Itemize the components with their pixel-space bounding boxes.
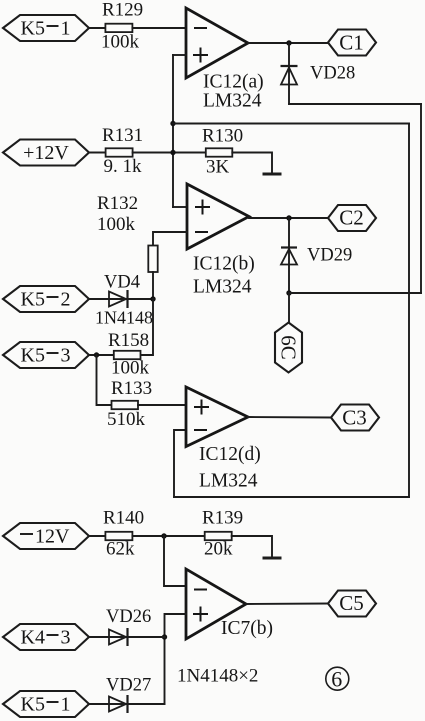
connector C2 [328, 205, 376, 231]
svg-text:C5: C5 [339, 591, 364, 615]
svg-text:K5: K5 [21, 345, 45, 367]
ground [263, 173, 282, 176]
node R140/R139 junction [161, 533, 166, 538]
svg-text:1: 1 [61, 694, 71, 716]
resistor R132 [97, 193, 158, 272]
svg-text:1N4148×2: 1N4148×2 [177, 666, 258, 687]
svg-text:K5: K5 [21, 694, 45, 716]
diode VD29 [281, 246, 352, 266]
svg-text:IC12(d): IC12(d) [199, 444, 261, 465]
connector +12V [3, 140, 89, 166]
connector K5-1 (bottom) [3, 691, 89, 717]
wire IC7(b) non-inverting input down to diodes [165, 614, 187, 704]
svg-text:LM324: LM324 [203, 91, 262, 112]
svg-text:R132: R132 [97, 193, 138, 214]
diode VD27 [106, 676, 151, 714]
wire junction down to IC7(b) inverting input [164, 536, 186, 586]
wire feedback bottom horizontal [174, 496, 409, 498]
svg-text:R131: R131 [102, 125, 143, 146]
connector C1 [328, 30, 376, 56]
svg-text:3K: 3K [206, 157, 230, 178]
wire IC12(d) output to C3 [248, 416, 331, 419]
connector -12V [3, 523, 89, 549]
svg-text:VD27: VD27 [106, 676, 151, 696]
svg-text:C2: C2 [339, 206, 364, 230]
resistor R131 [102, 125, 143, 177]
svg-text:1N4148: 1N4148 [95, 308, 153, 328]
wire IC12(a) non-inverting stub [173, 54, 186, 56]
wire R139 to ground [232, 536, 272, 557]
svg-text:R139: R139 [202, 508, 243, 529]
svg-text:K5: K5 [21, 289, 45, 311]
ground [263, 557, 282, 560]
svg-text:IC12(b): IC12(b) [193, 254, 255, 275]
wire K5-2 to VD4 [89, 298, 153, 300]
resistor R129 [101, 0, 143, 53]
wire node down to C6 [288, 293, 290, 323]
node C2 junction [286, 215, 291, 220]
op-amp IC12(b) [187, 184, 255, 298]
svg-text:LM324: LM324 [199, 471, 258, 492]
resistor R140 [103, 508, 144, 560]
connector K4-3 [3, 624, 89, 650]
node C1 junction [286, 40, 291, 45]
wire node down to R158 right end [141, 299, 154, 355]
wire R130 to ground [232, 153, 272, 174]
connector C3 [331, 405, 379, 431]
wire reference vertical line [172, 55, 174, 207]
wire C1 net top horizontal [289, 103, 421, 105]
svg-text:20k: 20k [204, 539, 233, 560]
page number 6 [326, 666, 349, 691]
connector K5-3 [3, 342, 89, 368]
wire feedback left vertical to IC12(d) inverting [174, 430, 186, 497]
wire K5-1 to R129 [89, 27, 105, 29]
wire right outer vertical [420, 104, 422, 293]
connector C5 [328, 591, 376, 617]
connector K5-1 [3, 15, 89, 41]
svg-text:LM324: LM324 [193, 277, 252, 298]
svg-text:1: 1 [61, 18, 71, 40]
svg-text:+12V: +12V [23, 142, 69, 164]
resistor R130 [202, 126, 243, 178]
wire IC7(b) output to C5 [246, 603, 328, 606]
wire R129 to IC12(a) inverting input [132, 27, 186, 29]
wire R132 bottom to VD4 node [152, 272, 154, 299]
wire R133 to IC12(d) non-inverting input [138, 404, 186, 406]
svg-text:R129: R129 [102, 0, 143, 21]
svg-text:VD26: VD26 [106, 607, 151, 627]
op-amp IC12(d) [186, 387, 261, 492]
svg-text:510k: 510k [107, 409, 146, 430]
wire +12V to R131 [89, 152, 106, 154]
svg-text:C1: C1 [339, 31, 364, 55]
node VD26 junction [162, 634, 167, 639]
wire IC12(b) output to C2 [249, 217, 328, 219]
diode VD28 [281, 64, 356, 85]
resistor R158 [108, 330, 150, 379]
wire K4-3 to VD26 [89, 636, 165, 638]
resistor R139 [202, 508, 243, 560]
svg-text:100k: 100k [111, 358, 150, 379]
svg-text:R130: R130 [202, 126, 243, 147]
svg-text:C3: C3 [342, 406, 367, 430]
svg-text:12V: 12V [35, 526, 70, 548]
wire K5-3 junction down to R133 [97, 355, 112, 405]
svg-text:VD28: VD28 [310, 64, 355, 84]
svg-text:100k: 100k [101, 32, 140, 53]
op-amp IC7(b) [186, 569, 273, 639]
svg-text:R133: R133 [111, 378, 152, 399]
wire stub to IC12(b) non-inverting input [173, 206, 187, 208]
wire IC12(a) output to C1 [248, 42, 328, 44]
wire node right to outer vertical [289, 292, 421, 294]
node divider junction [170, 150, 175, 155]
svg-text:IC7(b): IC7(b) [221, 618, 273, 639]
svg-text:6: 6 [331, 666, 342, 691]
wire R140 to R139 [132, 535, 204, 537]
node junction feedback top [170, 121, 175, 126]
wire C2 node down to VD29 [288, 218, 290, 293]
wire feedback right vertical [408, 124, 410, 498]
node VD29/C6 junction [286, 290, 291, 295]
svg-text:R140: R140 [103, 508, 144, 529]
wire K5-3 to R158 [89, 354, 114, 356]
wire C1 node down to VD28 [288, 43, 290, 104]
svg-text:6C: 6C [277, 335, 301, 360]
op-amp IC12(a) [186, 8, 264, 112]
svg-text:100k: 100k [97, 214, 136, 235]
svg-text:K5: K5 [21, 18, 45, 40]
diode VD26 [106, 607, 151, 646]
svg-text:K4: K4 [21, 627, 45, 649]
svg-text:R158: R158 [108, 330, 149, 351]
svg-text:3: 3 [61, 345, 71, 367]
wire -12V to R140 [89, 535, 105, 537]
svg-text:9. 1k: 9. 1k [104, 156, 143, 177]
wire IC12(b) inverting input to R132 [153, 232, 187, 246]
wire feedback top horizontal [173, 123, 409, 125]
node VD4/R132/R158 junction [150, 296, 155, 301]
svg-text:2: 2 [61, 289, 71, 311]
wire R131 to R130 [133, 152, 206, 154]
node K5-3 junction [94, 352, 99, 357]
svg-text:62k: 62k [106, 539, 135, 560]
svg-text:3: 3 [61, 627, 71, 649]
connector K5-2 [3, 286, 89, 312]
svg-text:VD4: VD4 [104, 273, 140, 293]
diode VD4 [95, 273, 153, 328]
connector C6 [275, 323, 302, 373]
resistor R133 [107, 378, 152, 430]
svg-text:VD29: VD29 [307, 246, 352, 266]
svg-text:IC12(a): IC12(a) [203, 72, 264, 93]
wire K5-1 to VD27 [89, 703, 165, 705]
